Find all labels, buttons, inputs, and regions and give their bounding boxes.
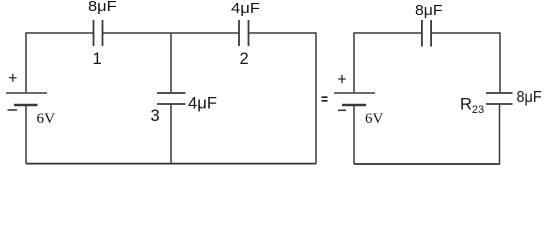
- svg-text:R23: R23: [460, 96, 484, 116]
- capacitor C1 left plate: [93, 20, 95, 46]
- capacitor top-right 8uF left plate: [421, 20, 423, 47]
- svg-text:8μF: 8μF: [517, 89, 542, 106]
- wire: left circuit left edge below battery: [25, 105, 27, 164]
- svg-text:8μF: 8μF: [88, 0, 117, 15]
- equals sign between circuits: [322, 97, 328, 101]
- battery B1 negative plate: [14, 104, 38, 106]
- svg-text:6V: 6V: [37, 111, 56, 127]
- svg-text:4μF: 4μF: [231, 1, 260, 17]
- battery B2 plus sign: [338, 75, 346, 83]
- capacitor C23 bottom plate: [486, 103, 513, 105]
- capacitor C1 right plate: [102, 20, 104, 46]
- battery B1 positive plate: [6, 92, 47, 94]
- wire: middle branch from top node down to capacitor 3: [170, 33, 172, 93]
- capacitor C23 top plate: [486, 92, 513, 94]
- battery B1 plus sign: [9, 74, 17, 82]
- capacitor C2 left plate: [238, 20, 240, 46]
- battery B2 positive plate: [334, 92, 375, 94]
- capacitor C3 top plate: [157, 92, 186, 94]
- wire: left circuit top-right corner down right edge: [249, 33, 317, 164]
- wire: right circuit left edge below battery: [353, 105, 355, 164]
- svg-text:4μF: 4μF: [188, 94, 217, 113]
- wire: right circuit bottom side: [354, 163, 500, 165]
- wire: right circuit top side after capacitor to top-right corner and right edge: [431, 33, 500, 93]
- capacitor top-right 8uF right plate: [430, 20, 432, 47]
- wire: middle branch from capacitor 3 down to bottom node: [170, 104, 172, 164]
- battery B1 minus sign: [8, 109, 18, 111]
- battery B2 minus sign: [338, 109, 346, 111]
- svg-text:8μF: 8μF: [415, 3, 443, 19]
- svg-text:1: 1: [93, 50, 102, 68]
- battery B2 negative plate: [342, 104, 366, 106]
- wire: left circuit top side, left segment: [26, 33, 94, 93]
- capacitor C3 bottom plate: [157, 103, 186, 105]
- svg-text:2: 2: [240, 50, 249, 68]
- svg-text:6V: 6V: [365, 111, 384, 127]
- svg-text:3: 3: [151, 107, 160, 125]
- wire: left circuit top, between capacitor 1 and capacitor 2: [103, 32, 240, 34]
- wire: right circuit left edge above battery and top side to capacitor: [354, 33, 422, 93]
- wire: right branch below capacitor C23 to bottom-right corner: [499, 104, 501, 164]
- capacitor C2 right plate: [248, 20, 250, 46]
- wire: left circuit bottom side: [26, 163, 316, 165]
